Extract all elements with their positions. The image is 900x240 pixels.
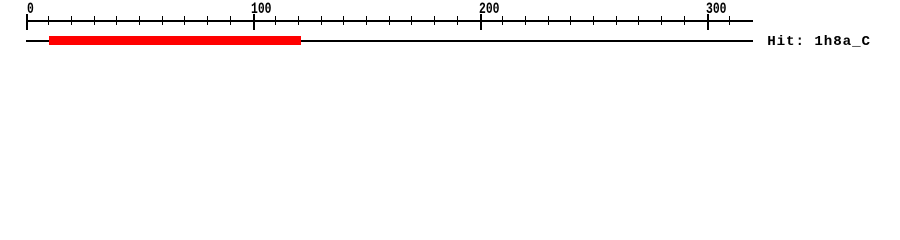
major tick 100	[253, 14, 255, 30]
hit alignment line	[26, 40, 753, 42]
ruler label 200	[479, 2, 499, 18]
minor ticks (every 10 residues)	[48, 16, 50, 25]
ruler label 0	[27, 2, 34, 18]
ruler scale line	[26, 20, 753, 22]
hit label text	[767, 35, 871, 49]
ruler label 100	[251, 2, 271, 18]
major tick 200	[480, 14, 482, 30]
hit alignment red bar (query coverage)	[49, 36, 301, 45]
ruler label 300	[706, 2, 726, 18]
major tick 300	[707, 14, 709, 30]
major tick 0	[26, 14, 28, 30]
